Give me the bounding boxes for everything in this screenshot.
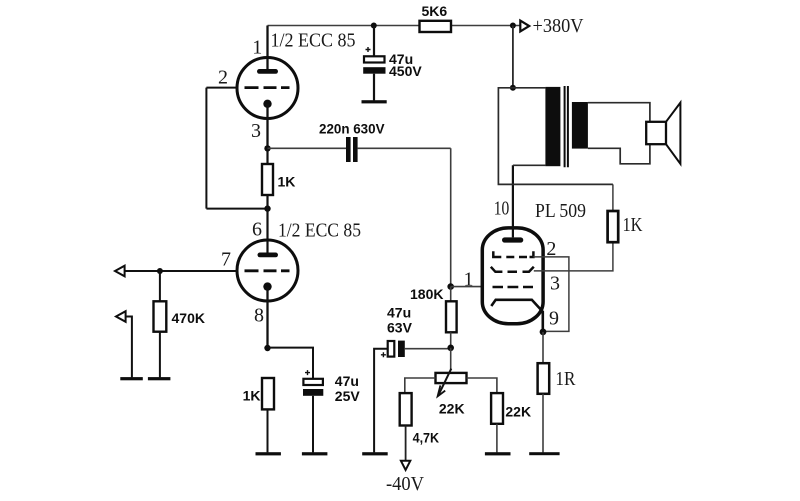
svg-text:8: 8 xyxy=(254,305,264,327)
resistor R 4,7K xyxy=(400,393,439,445)
wire 47u63V right to bias node xyxy=(405,348,451,350)
capacitor C 47u 450V xyxy=(363,26,422,101)
svg-text:63V: 63V xyxy=(387,319,413,335)
svg-text:1K: 1K xyxy=(243,388,261,404)
svg-text:1: 1 xyxy=(464,269,474,291)
wire V1a grid exit xyxy=(206,87,237,89)
node junction rail-transformer xyxy=(510,23,516,29)
node junction grid1 PL509 xyxy=(447,283,454,290)
svg-text:22K: 22K xyxy=(439,400,465,416)
resistor R 1K (V2a cathode) xyxy=(243,378,274,409)
terminal arrow -40V xyxy=(386,461,425,495)
resistor R 470K xyxy=(154,301,205,331)
svg-text:+380V: +380V xyxy=(533,15,584,37)
svg-text:1K: 1K xyxy=(278,174,296,190)
resistor R 1K (V1a cathode) xyxy=(262,164,295,195)
triode V1a cathode dot xyxy=(263,100,271,108)
triode V2a anode plate xyxy=(258,253,279,258)
node junction cathode V3 xyxy=(540,329,547,336)
svg-text:3: 3 xyxy=(251,120,261,142)
resistor R 22K right xyxy=(491,393,531,424)
wire transformer primary bottom lead xyxy=(513,164,546,166)
svg-text:25V: 25V xyxy=(335,388,361,404)
svg-text:7: 7 xyxy=(221,249,231,271)
svg-text:10: 10 xyxy=(494,198,510,220)
wire V1a cathode to 1K xyxy=(266,148,268,164)
resistor R 1K (g3 to B+) xyxy=(608,184,643,242)
wire 1K to V2a anode xyxy=(266,195,268,253)
svg-text:1: 1 xyxy=(252,37,262,59)
pentode V3 PL 509 envelope xyxy=(482,228,543,324)
triode V2a grid dashes xyxy=(245,269,290,272)
wire input return xyxy=(126,317,132,378)
speaker LS1 box xyxy=(646,122,666,144)
svg-text:2: 2 xyxy=(218,67,228,89)
svg-text:PL 509: PL 509 xyxy=(535,200,586,222)
ground bar under 1R xyxy=(529,452,559,455)
svg-text:470K: 470K xyxy=(172,310,205,326)
ground bar under 47u 25V xyxy=(302,452,328,455)
capacitor C 47u 25V xyxy=(303,370,360,452)
node junction input 470K xyxy=(157,268,163,274)
wire 22K to ground xyxy=(496,424,498,453)
svg-text:22K: 22K xyxy=(505,403,531,419)
svg-text:1/2 ECC 85: 1/2 ECC 85 xyxy=(278,220,361,242)
ground bar input return xyxy=(120,377,143,380)
svg-text:47u: 47u xyxy=(387,304,411,320)
svg-text:180K: 180K xyxy=(410,286,443,302)
pentode V3 screen grid g2 xyxy=(493,251,533,257)
potentiometer P 22K xyxy=(436,369,467,417)
wire g2 to cathode node xyxy=(533,257,569,332)
triode V2a cathode dot xyxy=(263,282,271,290)
triode V2a envelope 1/2 ECC 85 xyxy=(237,240,298,301)
wire B+ rail left segment xyxy=(268,25,420,27)
transformer T1 secondary winding xyxy=(572,102,588,149)
ground bar under 1K xyxy=(256,452,281,455)
svg-text:220n 630V: 220n 630V xyxy=(319,121,385,137)
terminal arrow input return xyxy=(116,311,126,322)
node junction transformer primary top xyxy=(510,85,516,91)
wire +380V branch down to transformer xyxy=(512,26,514,88)
wire 220n left lead xyxy=(268,147,347,149)
ground bar under C 47u 450V xyxy=(362,100,387,103)
svg-text:6: 6 xyxy=(252,218,262,240)
svg-text:9: 9 xyxy=(549,308,559,330)
speaker LS1 cone xyxy=(666,103,680,164)
wire 1K to ground xyxy=(267,409,269,452)
node junction cathode V1a xyxy=(264,145,270,151)
wire g3 to 1K xyxy=(534,242,613,271)
wire V1a cathode lead xyxy=(266,104,268,149)
wire B+ rail right segment xyxy=(451,25,520,27)
transformer T1 primary winding xyxy=(545,87,560,166)
wire V3 anode lead xyxy=(512,165,514,237)
ground bar under 22K xyxy=(485,452,511,455)
wire input to V2a grid xyxy=(125,270,238,272)
wire bias node to pot wiper xyxy=(450,348,452,369)
svg-text:5K6: 5K6 xyxy=(422,3,448,19)
capacitor C 47u 63V xyxy=(381,304,413,357)
wire feedback horizontal xyxy=(206,208,267,210)
node junction feedback xyxy=(264,205,270,211)
wire secondary top lead xyxy=(588,103,650,122)
pentode V3 control grid g1 dashes xyxy=(493,286,534,289)
wire V2a cathode lead xyxy=(266,287,268,348)
ground bar under 470K xyxy=(148,377,171,380)
wire 4,7K to -40V xyxy=(405,426,407,461)
terminal arrow +380V xyxy=(520,15,584,37)
svg-text:-40V: -40V xyxy=(386,473,425,495)
wire transformer primary outer loop xyxy=(498,88,613,185)
wire cathode node to bypass cap xyxy=(268,348,314,379)
wire 470K to ground xyxy=(159,332,161,378)
node junction V2a cathode xyxy=(264,345,270,351)
wire pot left terminal xyxy=(405,378,436,393)
wire pot right terminal xyxy=(467,378,497,393)
triode V1a grid dashes xyxy=(245,86,290,89)
wire tube V1a anode lead xyxy=(266,26,268,70)
wire 220n right lead xyxy=(358,147,451,149)
resistor R 5K6 xyxy=(420,3,452,32)
svg-text:1R: 1R xyxy=(555,368,576,390)
wire input node to 470K xyxy=(159,271,161,301)
pentode V3 suppressor grid g3 xyxy=(491,267,534,272)
svg-text:1/2 ECC 85: 1/2 ECC 85 xyxy=(271,30,356,52)
svg-text:47u: 47u xyxy=(335,373,359,389)
resistor R 1R (V3 cathode) xyxy=(538,332,576,453)
svg-text:1K: 1K xyxy=(623,214,643,236)
wire feedback vertical xyxy=(205,88,207,209)
terminal arrow input signal xyxy=(115,266,125,277)
capacitor C 220n 630V xyxy=(319,121,385,162)
node junction bias xyxy=(447,345,454,352)
triode V1a anode plate xyxy=(257,69,278,74)
ground bar under 47u 63V xyxy=(362,452,388,455)
pentode V3 cathode xyxy=(491,300,543,332)
wire coupling down to grid node xyxy=(450,148,452,286)
wire secondary bottom lead xyxy=(588,144,650,164)
wire 47u63V left to ground xyxy=(374,349,388,453)
transformer T1 core xyxy=(565,86,568,167)
resistor R 180K xyxy=(410,286,457,348)
svg-text:3: 3 xyxy=(550,273,560,295)
wire grid1 node to PL509 xyxy=(451,286,481,288)
triode V1a envelope 1/2 ECC 85 xyxy=(237,58,298,119)
svg-text:450V: 450V xyxy=(389,63,422,79)
svg-text:4,7K: 4,7K xyxy=(413,429,440,445)
pentode V3 anode plate xyxy=(502,237,523,242)
node junction rail-cap xyxy=(371,23,377,29)
